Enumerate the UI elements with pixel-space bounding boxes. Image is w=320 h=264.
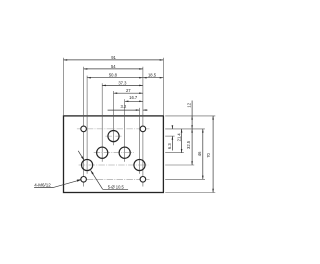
svg-text:91: 91 xyxy=(111,55,116,60)
svg-text:50.8: 50.8 xyxy=(109,73,118,78)
svg-text:37.3: 37.3 xyxy=(118,80,127,85)
svg-text:21.4: 21.4 xyxy=(176,133,181,142)
svg-text:16.7: 16.7 xyxy=(129,95,138,100)
svg-text:46: 46 xyxy=(197,151,202,156)
svg-text:18.5: 18.5 xyxy=(148,72,157,77)
svg-text:54: 54 xyxy=(111,64,116,69)
svg-text:5-Ø 10.5: 5-Ø 10.5 xyxy=(108,184,125,189)
svg-text:27: 27 xyxy=(126,88,131,93)
svg-text:12: 12 xyxy=(186,102,191,107)
svg-text:4-M6/12: 4-M6/12 xyxy=(34,182,51,187)
svg-text:70: 70 xyxy=(206,153,211,158)
svg-text:32.5: 32.5 xyxy=(186,140,191,149)
svg-text:6.3: 6.3 xyxy=(167,143,172,149)
svg-text:3.2: 3.2 xyxy=(121,104,127,109)
